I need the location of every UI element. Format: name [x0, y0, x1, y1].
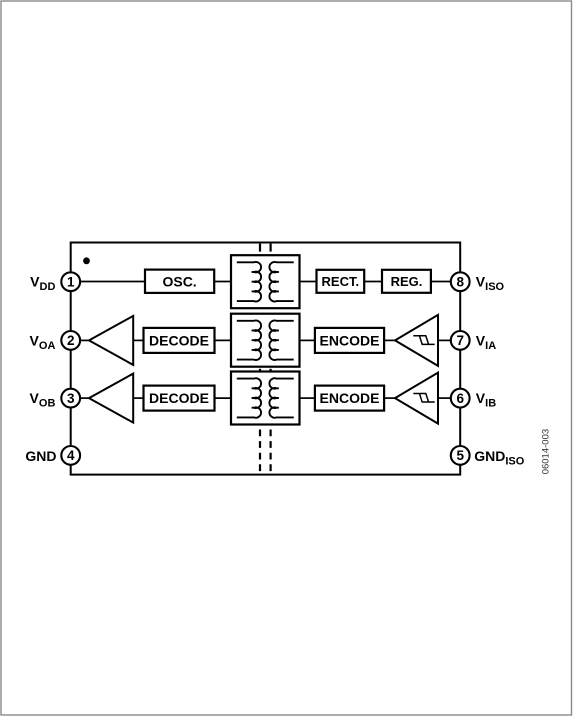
svg-text:06014-003: 06014-003	[541, 429, 552, 474]
svg-text:VIA: VIA	[476, 332, 496, 352]
block OSC.	[145, 270, 214, 293]
isolation barrier dashed line, right column middle nub	[270, 369, 272, 372]
wire ENCODE A to schmitt A	[384, 339, 396, 341]
pin 6	[451, 389, 470, 408]
svg-text:8: 8	[456, 275, 464, 290]
IC body outline	[71, 243, 461, 475]
svg-text:RECT.: RECT.	[322, 274, 360, 289]
block REG.	[382, 270, 431, 293]
block ENCODE A	[315, 328, 384, 353]
svg-text:1: 1	[67, 275, 75, 290]
schmitt buffer B (input, row 3 right)	[395, 373, 438, 424]
pin 7	[451, 331, 470, 350]
svg-text:GND: GND	[25, 448, 56, 464]
buffer A (output, row 2 left)	[89, 316, 133, 365]
svg-text:VIB: VIB	[476, 390, 496, 410]
transformer T1	[231, 255, 300, 308]
svg-text:REG.: REG.	[391, 274, 423, 289]
wire pin3 to buffer B	[81, 397, 90, 399]
transformer T2	[231, 314, 300, 367]
wire OSC to T1 primary	[214, 281, 231, 283]
schmitt buffer A (input, row 2 right)	[395, 315, 438, 366]
isolation barrier dashed line, left column middle nub	[259, 369, 261, 372]
pin 1 marker dot	[83, 257, 90, 264]
isolation barrier dashed line, left column top segment	[259, 244, 261, 252]
wire T1 secondary to RECT	[300, 281, 317, 283]
block ENCODE B	[315, 386, 384, 411]
svg-text:4: 4	[67, 448, 75, 463]
wire T3 secondary to ENCODE B	[300, 397, 315, 399]
wire RECT to REG	[364, 281, 382, 283]
transformer T3	[231, 372, 300, 425]
pin 1	[61, 272, 80, 291]
block DECODE B	[144, 386, 215, 411]
wire schmitt A to pin7	[438, 339, 450, 341]
block DECODE A	[144, 328, 215, 353]
wire buffer A to DECODE A	[133, 339, 143, 341]
pin 3	[61, 389, 80, 408]
svg-text:3: 3	[67, 391, 75, 406]
wire schmitt B to pin6	[438, 397, 450, 399]
wire pin2 to buffer A	[81, 339, 90, 341]
svg-text:2: 2	[67, 333, 75, 348]
wire T2 secondary to ENCODE A	[300, 339, 315, 341]
svg-text:ENCODE: ENCODE	[320, 332, 380, 348]
block RECT.	[317, 270, 365, 293]
isolation barrier dashed line, right column top segment	[270, 244, 272, 252]
wire DECODE B to T3 primary	[215, 397, 232, 399]
pin 5	[451, 446, 470, 465]
buffer B (output, row 3 left)	[89, 374, 133, 423]
pin 2	[61, 331, 80, 350]
svg-text:5: 5	[456, 448, 464, 463]
svg-text:DECODE: DECODE	[149, 390, 209, 406]
isolation barrier dashed line, right column bottom segment	[270, 430, 272, 472]
isolation barrier dashed line, left column bottom segment	[259, 430, 261, 472]
svg-text:VOB: VOB	[30, 390, 56, 410]
wire REG to pin8	[431, 281, 450, 283]
svg-text:OSC.: OSC.	[162, 273, 196, 289]
svg-text:GNDISO: GNDISO	[474, 448, 525, 468]
svg-text:VDD: VDD	[30, 274, 55, 294]
svg-text:DECODE: DECODE	[149, 332, 209, 348]
wire ENCODE B to schmitt B	[384, 397, 396, 399]
svg-text:VOA: VOA	[30, 332, 56, 352]
pin 8	[451, 272, 470, 291]
wire pin1 to OSC	[81, 281, 145, 283]
wire DECODE A to T2 primary	[215, 339, 232, 341]
svg-text:7: 7	[456, 333, 464, 348]
svg-text:ENCODE: ENCODE	[320, 390, 380, 406]
svg-text:VISO: VISO	[476, 274, 505, 294]
svg-text:6: 6	[456, 391, 464, 406]
pin 4	[61, 446, 80, 465]
wire buffer B to DECODE B	[133, 397, 143, 399]
